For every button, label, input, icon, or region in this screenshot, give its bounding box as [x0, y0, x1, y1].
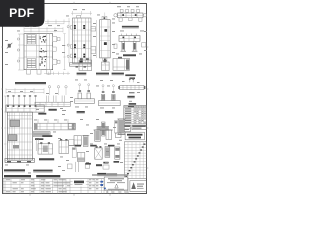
small label right — [130, 77, 136, 79]
revision grid with diagonal — [124, 142, 146, 179]
detail row caption labels — [77, 73, 124, 75]
narrow strip left of posts box — [36, 138, 39, 151]
scatter labels row 1 — [75, 145, 115, 147]
title caption box — [125, 132, 144, 140]
strip S3 caption — [35, 138, 43, 140]
strip S1 caption — [49, 109, 57, 111]
svg-text:PDF: PDF — [9, 6, 34, 20]
balloon circles mid — [48, 86, 67, 95]
scatter labels row 2 — [85, 161, 119, 165]
small dark label mid-bottom — [96, 164, 102, 166]
left lower marks — [76, 162, 79, 172]
V1 right side attachments — [53, 37, 60, 65]
blue signature marks — [100, 181, 105, 189]
tiny views above bottom table — [68, 164, 110, 169]
V5 caption label — [123, 54, 136, 56]
north arrow figure — [7, 43, 13, 49]
strip view S2 — [34, 119, 75, 130]
detail cross assembly — [97, 122, 109, 136]
scatter braced box — [95, 146, 103, 159]
company logo box — [130, 181, 146, 192]
right strip small text — [129, 92, 135, 93]
V1 right dim line — [63, 34, 65, 70]
V2 right dim line — [96, 20, 98, 58]
notes caption strip — [97, 173, 117, 176]
scatter small 4 — [115, 133, 121, 138]
PDF badge — [0, 0, 45, 27]
V2 right attachments — [91, 27, 96, 54]
right strip flags — [129, 79, 134, 83]
property text strip — [92, 174, 128, 175]
scatter bar 1 — [82, 136, 89, 147]
narrow bar below — [72, 148, 76, 158]
small posts box caption — [39, 158, 54, 160]
top-right frame assembly V5 — [114, 34, 146, 52]
detail vertical bar right — [117, 119, 125, 135]
pedestal section T1 — [75, 84, 95, 104]
vertical dim left frame — [4, 96, 6, 160]
V2 top dim marks — [71, 11, 92, 15]
bottom-left tall column view — [7, 112, 32, 160]
detail view DC — [113, 57, 130, 71]
small view mid — [59, 139, 69, 154]
V1 caption label — [15, 82, 46, 85]
bottom-left caption — [4, 169, 25, 172]
center elevation view V2 — [71, 18, 91, 63]
V2 top cap — [77, 15, 81, 18]
bottom-left header bar 2 — [36, 175, 60, 177]
V1 bottom feet — [27, 70, 51, 74]
right data table — [124, 103, 146, 124]
scatter bar 5 — [105, 147, 110, 158]
V4 caption label — [122, 26, 139, 28]
bottom-left header bar 1 — [4, 175, 31, 177]
frame zone tick marks — [1, 2, 148, 196]
pedestal caption labels — [77, 111, 114, 113]
detail view DB — [102, 60, 110, 71]
bottom-left base plate — [5, 158, 34, 162]
scatter bar 6 — [115, 147, 120, 159]
scatter bar 2 — [94, 130, 102, 141]
dim line top strip — [45, 20, 70, 25]
dim line left of main view — [17, 34, 24, 70]
V2 left dim line — [67, 18, 69, 63]
small box right of view mid — [69, 140, 74, 146]
signature column text specks — [89, 179, 127, 192]
scatter L part — [77, 153, 85, 162]
bottom-left girder elevation — [6, 95, 44, 112]
narrow side view V3 — [100, 20, 111, 58]
V3 bottom mark — [103, 58, 107, 64]
strip S2 label above — [38, 113, 46, 115]
approval stamp box — [104, 177, 128, 190]
right strip label — [125, 74, 135, 76]
right strip caption — [127, 96, 134, 98]
V3 top cap — [102, 13, 107, 20]
strip view S1 — [35, 96, 70, 107]
strip label right — [42, 135, 52, 137]
second bottom caption — [33, 170, 52, 173]
right small boxes row — [124, 125, 146, 131]
main plan view V1 — [24, 34, 53, 70]
pedestal section T2 — [99, 85, 121, 106]
tiny annotation text specks — [5, 6, 147, 173]
scatter assembly left — [74, 136, 82, 146]
V1 bottom dim line — [44, 72, 70, 75]
V2 base plate — [70, 61, 92, 68]
detail small left — [69, 124, 76, 130]
top-right assembly V4 — [114, 9, 147, 21]
bottom parts table — [3, 179, 128, 194]
detail view DA — [79, 58, 92, 70]
small posts box — [38, 142, 53, 154]
dim lines below V1 label — [6, 88, 44, 93]
bottom table logo cell — [73, 179, 86, 186]
V1 top dimension lines — [24, 27, 63, 32]
scatter bar 3 — [105, 130, 113, 139]
sheet border frame — [3, 4, 147, 194]
narrow companion bar — [115, 121, 118, 134]
right thin strip view — [118, 85, 145, 89]
strip view S3 — [33, 132, 50, 137]
